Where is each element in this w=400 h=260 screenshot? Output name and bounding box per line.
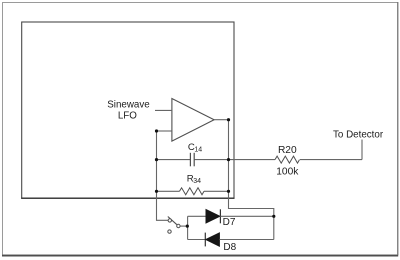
wire: pole to diode loop [180, 225, 187, 227]
wire: D8 anode [219, 239, 273, 241]
wire: diode loop left [187, 216, 189, 239]
wire: left vertical bus [157, 131, 169, 220]
svg-text:D7: D7 [223, 217, 236, 228]
node: D7 cathode junction [272, 215, 275, 218]
svg-text:Sinewave: Sinewave [107, 99, 150, 110]
label R34 [187, 174, 201, 185]
label Sinewave LFO [107, 99, 150, 121]
junction dots [155, 118, 276, 228]
wire: D7 anode [188, 215, 206, 217]
wire: right vertical bus [229, 120, 274, 240]
svg-text:34: 34 [193, 178, 201, 185]
svg-text:14: 14 [194, 146, 202, 153]
node: switch pole junction [186, 225, 189, 228]
switch pole [177, 224, 180, 227]
svg-text:LFO: LFO [118, 110, 137, 121]
capacitor C14 [157, 153, 229, 167]
svg-text:D8: D8 [223, 242, 236, 253]
circuit box [22, 22, 234, 198]
node: cap right junction [227, 158, 230, 161]
svg-text:R20: R20 [278, 145, 297, 156]
diode D7 [206, 209, 220, 223]
circuit box bottom edge [21, 197, 234, 199]
wire: D8 cathode [188, 239, 206, 241]
op-amp U1 [172, 99, 214, 142]
wire to detector [229, 140, 363, 160]
svg-text:To Detector: To Detector [333, 129, 384, 140]
node: cap left junction [155, 158, 158, 161]
wire: op-amp output [214, 119, 228, 121]
wire: inverting input [157, 130, 172, 132]
label C14 [188, 142, 202, 154]
switch contact B [168, 230, 171, 233]
wire: D7 cathode [220, 215, 273, 217]
diode D8 [205, 233, 219, 247]
switch SW1 lever [168, 217, 177, 225]
wire: non-inverting input [155, 109, 172, 111]
svg-text:100k: 100k [276, 166, 299, 177]
resistor R20 [275, 156, 300, 163]
node: inverting input junction [155, 129, 158, 132]
node: output junction [227, 118, 230, 121]
resistor R34 [157, 188, 229, 195]
node: R34 right junction [227, 190, 230, 193]
node: R34 left junction [155, 190, 158, 193]
switch contact A [168, 219, 171, 222]
